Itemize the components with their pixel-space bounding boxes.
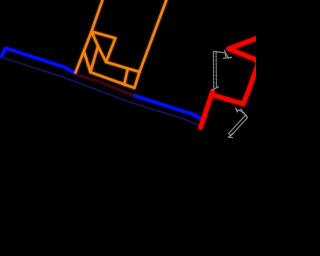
- wire: blue main line left segment with end tick: [2, 48, 76, 73]
- wire: orange lambda right fork to V: [98, 46, 106, 62]
- wire: faint navy guide line: [3, 58, 200, 126]
- wire: gray top horizontal: [214, 51, 225, 53]
- wire: orange left stem: [92, 0, 103, 32]
- wire: gray link to bar corner: [242, 112, 246, 117]
- wire: gray hook down: [224, 53, 227, 57]
- wire: gray bar foot slash: [229, 133, 233, 136]
- wire: orange lambda left fork to G: [90, 46, 98, 72]
- wire: orange B-V segment: [106, 38, 115, 62]
- wire: orange K-X drop: [124, 69, 128, 85]
- wire: red leaning line with tail: [201, 92, 213, 128]
- wire: blue main line group with glow: [2, 48, 202, 119]
- wire: gray arrow tick at top right: [224, 50, 226, 54]
- wire: gray bar foot serif: [228, 136, 232, 139]
- wire: gray dashed vertical right: [215, 52, 217, 89]
- wire: orange F branch down to G: [84, 51, 91, 72]
- wire: red lower arm with off-canvas bend and return to C2: [229, 49, 258, 104]
- wire: maroon dim double line lower twin: [76, 76, 134, 97]
- wire: orange bottom edge G-H: [90, 72, 134, 88]
- gray leader bar annotation: [228, 108, 247, 138]
- wire: maroon dim double line mid-section: [76, 74, 134, 95]
- red structure: [201, 38, 259, 128]
- wire: orange V-J segment: [106, 62, 140, 72]
- wire: red cross line to C2: [212, 95, 244, 104]
- wire: orange right long diagonal with bend at J: [134, 0, 166, 88]
- wire: blue main line right segment: [134, 95, 202, 119]
- wire: orange top edge A-B: [92, 32, 116, 39]
- wire: gray dimension tick bar: [237, 110, 243, 111]
- orange structure: [76, 0, 167, 88]
- gray staple annotation: [212, 50, 232, 90]
- wire: gray dashed vertical left: [212, 52, 214, 90]
- wire: gray bottom oblique tick: [212, 87, 219, 90]
- wire: orange A down-left line ending on blue: [76, 32, 92, 73]
- wire: gray hollow bar outline: [229, 116, 248, 136]
- wire: red upper arm: [229, 38, 258, 49]
- wire: orange inner diagonal A-lambda: [92, 32, 99, 47]
- wire: gray foot slash: [223, 56, 229, 59]
- wire: gray tick right slash: [241, 109, 243, 113]
- wire: gray foot squiggle: [227, 55, 232, 58]
- wire: gray tick left slash: [236, 108, 238, 112]
